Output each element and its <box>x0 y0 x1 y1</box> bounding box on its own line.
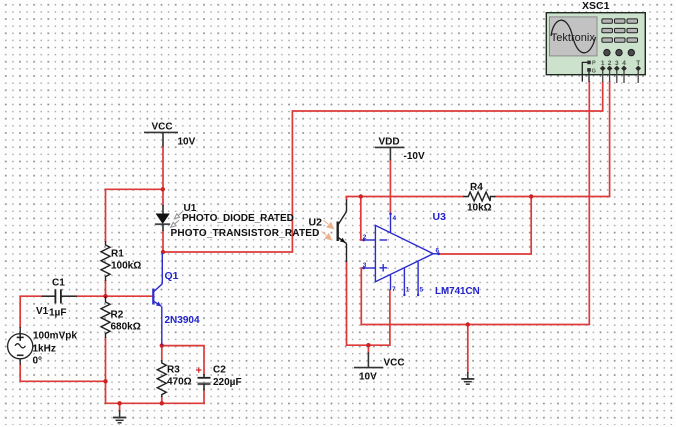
wire photodiode cathode to node <box>162 231 164 252</box>
svg-text:0°: 0° <box>33 356 43 367</box>
svg-text:V1: V1 <box>36 306 49 317</box>
svg-text:PHOTO_TRANSISTOR_RATED: PHOTO_TRANSISTOR_RATED <box>171 228 320 239</box>
U2 light arrows <box>322 220 334 240</box>
wire R2 bottom <box>105 338 107 381</box>
resistor R4 <box>463 192 495 201</box>
wire bottom node to ground rail <box>106 381 205 403</box>
C2 plus mark <box>196 367 202 372</box>
svg-text:C1: C1 <box>52 278 65 289</box>
phototransistor U2 <box>338 200 347 263</box>
svg-text:U3: U3 <box>433 211 447 223</box>
wire Q1 emitter rail to C2 top <box>162 346 204 374</box>
op-amp U3 <box>364 213 440 295</box>
wire R1 bottom to node A <box>105 281 107 296</box>
svg-text:U2: U2 <box>309 217 323 229</box>
node junction R1 branch <box>161 187 165 191</box>
wire inverting node down to op-amp minus input <box>361 197 363 241</box>
wire VDD stub to op-amp pin 4 <box>389 160 391 213</box>
ground left <box>113 410 126 423</box>
VCC supply top <box>144 132 178 146</box>
node junction inverting input <box>359 194 363 198</box>
svg-text:100kΩ: 100kΩ <box>111 261 141 272</box>
node junction VCC bottom tap <box>366 343 370 347</box>
wire op-amp plus input to ground rail <box>361 268 363 325</box>
svg-text:4: 4 <box>393 215 397 222</box>
Q1 emitter arrow <box>156 302 162 307</box>
node junction C1/R1/R2/base <box>103 294 107 298</box>
svg-text:R1: R1 <box>111 249 124 260</box>
VDD supply <box>375 147 405 160</box>
wire feedback node down to op-amp output <box>439 197 531 255</box>
transistor Q1 <box>153 253 162 346</box>
XSC1 pin labels 1 2 3 4 T <box>592 60 641 75</box>
svg-text:2: 2 <box>608 60 612 67</box>
resistor R3 <box>157 360 166 397</box>
node junction R3 bottom <box>160 401 164 405</box>
svg-text:1kHz: 1kHz <box>33 344 56 355</box>
wire R4 left <box>361 196 463 198</box>
svg-text:680kΩ: 680kΩ <box>111 322 141 333</box>
svg-text:1: 1 <box>601 60 605 67</box>
svg-text:10V: 10V <box>178 137 196 148</box>
svg-text:6: 6 <box>436 248 440 255</box>
capacitor C1 <box>42 289 77 303</box>
wire C2 bottom lead <box>203 391 205 404</box>
svg-text:G: G <box>592 69 596 75</box>
node junction ground tap left <box>117 401 121 405</box>
XSC1 P-G bracket <box>582 62 589 82</box>
wires layer <box>20 82 609 411</box>
svg-text:C2: C2 <box>213 365 226 376</box>
svg-text:R3: R3 <box>167 365 180 376</box>
XSC1 pin stubs <box>603 70 639 83</box>
wire V1 plus to C1 <box>20 296 42 327</box>
wire V1 minus to bottom node <box>20 364 105 381</box>
wire R3 bottom lead <box>161 397 163 403</box>
U2 emitter arrow <box>340 238 345 243</box>
node junction ground rail tap <box>466 322 470 326</box>
svg-text:1µF: 1µF <box>49 308 66 319</box>
resistor R1 <box>101 241 110 281</box>
svg-text:PHOTO_DIODE_RATED: PHOTO_DIODE_RATED <box>182 213 294 224</box>
wire node to scope channel 1 <box>163 82 603 252</box>
svg-text:3: 3 <box>363 262 367 269</box>
svg-text:VCC: VCC <box>384 358 405 369</box>
node junction emitter/R3/C2 <box>160 343 164 347</box>
wire R1 top lead <box>105 189 107 241</box>
svg-text:220µF: 220µF <box>213 377 242 388</box>
wire ground stub left <box>119 403 121 411</box>
svg-text:2: 2 <box>363 234 367 241</box>
wire R3 top lead <box>161 346 163 360</box>
svg-text:VDD: VDD <box>379 137 400 148</box>
wire ground rail to scope G <box>361 82 589 325</box>
svg-text:10V: 10V <box>359 371 377 382</box>
wire U2 emitter to VCC rail <box>347 262 390 345</box>
V1 AC source <box>8 327 33 365</box>
wire VCC bottom stub <box>367 345 369 352</box>
svg-text:P: P <box>592 60 596 66</box>
resistor R2 <box>101 296 110 338</box>
svg-text:Q1: Q1 <box>165 270 179 282</box>
VCC supply bottom <box>354 352 383 367</box>
svg-text:4: 4 <box>622 60 626 67</box>
wire ground rail tap down <box>467 325 469 373</box>
svg-text:VCC: VCC <box>152 122 173 133</box>
svg-text:XSC1: XSC1 <box>582 0 610 12</box>
svg-text:100mVpk: 100mVpk <box>33 331 77 342</box>
photodiode U1 <box>155 205 170 231</box>
svg-text:LM741CN: LM741CN <box>435 286 480 297</box>
node junction feedback/scope2 <box>529 194 533 198</box>
oscilloscope XSC1 <box>546 13 645 75</box>
capacitor C2 polarized <box>198 374 211 391</box>
wire VCC top to photodiode U1 anode <box>162 147 164 205</box>
wire node A to Q1 base <box>106 295 153 297</box>
U1 light arrows <box>171 212 183 227</box>
wire C1 to node A <box>77 295 106 297</box>
svg-text:R4: R4 <box>470 182 483 193</box>
ground right <box>461 372 474 384</box>
svg-text:5: 5 <box>420 287 424 294</box>
U3 pin end dots <box>362 213 440 297</box>
node junction V1/R2 <box>103 379 107 383</box>
wire feedback node to scope channel 2 <box>531 82 609 197</box>
svg-text:-10V: -10V <box>404 151 425 162</box>
wire node R1 top branch <box>106 188 164 190</box>
svg-text:7: 7 <box>392 286 396 293</box>
svg-text:3: 3 <box>615 60 619 67</box>
svg-text:2N3904: 2N3904 <box>165 315 200 326</box>
svg-text:1: 1 <box>406 287 410 294</box>
svg-text:10kΩ: 10kΩ <box>467 203 492 214</box>
node junction photodiode/Q1 collector <box>161 250 165 254</box>
svg-text:470Ω: 470Ω <box>167 377 192 388</box>
XSC1 pin terminals <box>587 61 641 72</box>
wire R4 right to feedback node <box>496 196 532 198</box>
svg-text:R2: R2 <box>111 310 124 321</box>
wire U2 collector to inverting node <box>347 197 361 200</box>
svg-text:Tektronix: Tektronix <box>551 32 596 44</box>
